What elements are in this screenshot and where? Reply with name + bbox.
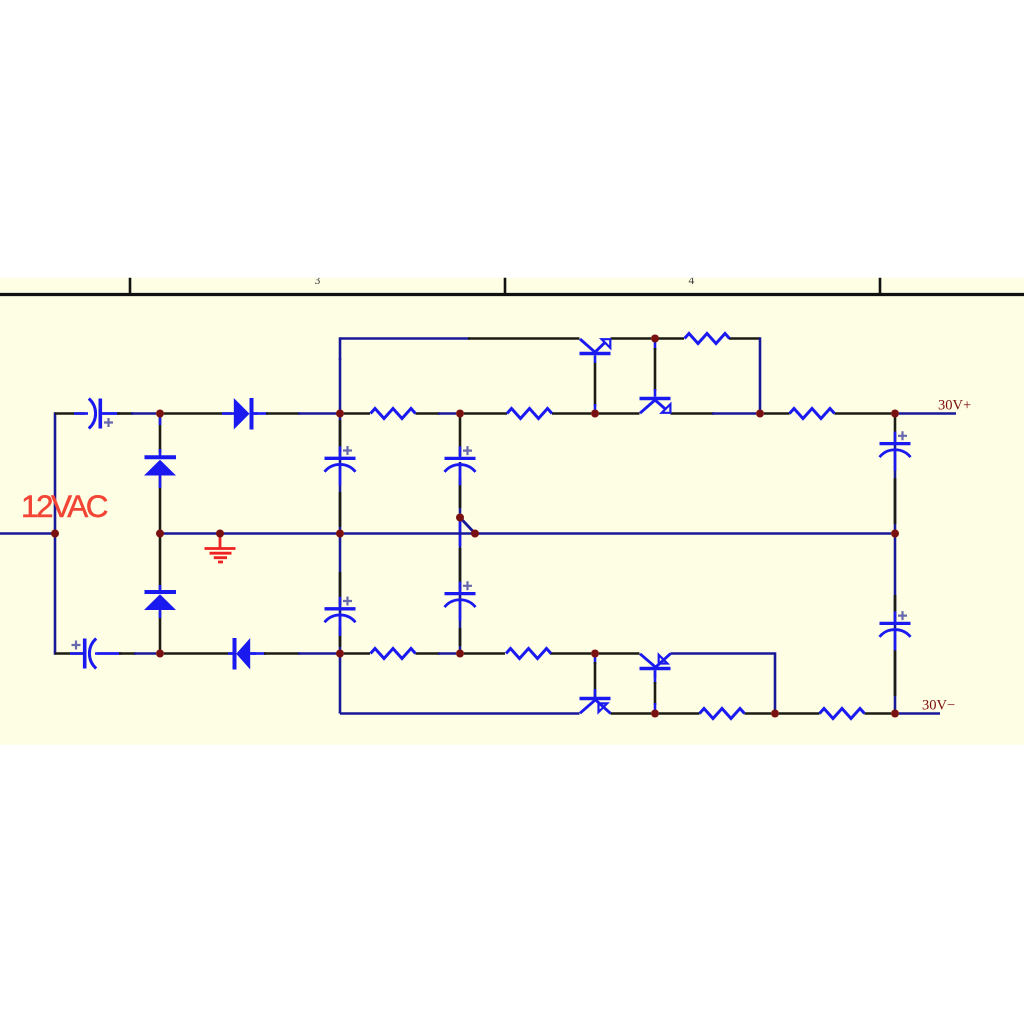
- capacitor C5: [445, 446, 476, 485]
- wire mid rail left: [160, 532, 340, 535]
- svg-text:12VAC: 12VAC: [21, 488, 109, 524]
- capacitor C1: [74, 399, 117, 429]
- junction node H: [456, 650, 464, 658]
- wire mid rail right: [344, 532, 891, 535]
- wire R1 to node E: [416, 412, 457, 415]
- resistor R2: [507, 409, 552, 419]
- wire R8 to 30V- node: [865, 712, 892, 715]
- wire C1 to node A: [55, 412, 156, 415]
- junction node E: [456, 410, 464, 418]
- transistor Q4: [580, 689, 611, 713]
- junction node 12VAC: [51, 530, 59, 538]
- wire Q1 emitter to Q2 base node: [611, 337, 652, 340]
- diode D2: [144, 585, 176, 618]
- wire node B to D4: [164, 652, 233, 655]
- wire node J to R7: [659, 712, 700, 715]
- junction node E-jog: [456, 514, 464, 522]
- wire node E to R2: [464, 412, 507, 415]
- wire output column lower: [894, 537, 897, 711]
- wire node D to R3: [344, 652, 370, 655]
- wire Q3 base lead: [654, 670, 657, 710]
- capacitor C6: [445, 581, 476, 620]
- wire R3 to node H: [416, 652, 457, 655]
- svg-text:30V−: 30V−: [922, 698, 955, 714]
- diode D3: [222, 398, 258, 430]
- wire 30V- stub: [899, 712, 940, 715]
- transistor Q1: [580, 339, 611, 363]
- resistor R7: [700, 709, 745, 719]
- junction node E-mid: [471, 530, 479, 538]
- junction node J: [651, 710, 659, 718]
- wire jog node E: [460, 518, 475, 534]
- wire Q2 base lead: [654, 342, 657, 392]
- wire Q4 emitter to Q3 base node: [611, 712, 652, 715]
- transistor Q3: [640, 654, 671, 678]
- wire column E lower: [459, 520, 462, 651]
- label 30V-: [922, 698, 955, 714]
- wire R7 to node K: [745, 712, 772, 715]
- wire R2 to Q1 base: [552, 412, 591, 415]
- wire Q1 collector row: [599, 412, 640, 415]
- wire column E upper: [459, 417, 462, 514]
- wire output column upper: [894, 417, 897, 531]
- junction node Q4-base: [591, 650, 599, 658]
- capacitor C3: [325, 446, 356, 485]
- junction node mid-right: [891, 530, 899, 538]
- diode D1: [144, 417, 176, 488]
- wire R4 to Q4 base node: [550, 652, 591, 655]
- transistor Q2: [640, 389, 671, 413]
- wire D3 to node C: [253, 412, 340, 415]
- wire Q3 emitter run: [671, 652, 776, 655]
- wire node G to D2: [159, 537, 162, 590]
- wire node C to R1: [344, 412, 370, 415]
- wire D2 to node B: [159, 611, 162, 651]
- wire node F top corner: [655, 337, 760, 410]
- wire bottom rail left: [340, 712, 580, 713]
- resistor R6: [790, 409, 835, 419]
- svg-text:30V+: 30V+: [938, 398, 971, 414]
- junction node K: [771, 710, 779, 718]
- wire R6 to 30V+ node: [835, 412, 892, 415]
- junction node G: [156, 530, 164, 538]
- wire Q2 emitter to node F: [671, 412, 757, 415]
- wire Q4 base lead: [594, 657, 597, 698]
- wire node H to R4: [464, 652, 505, 655]
- wire left vertical: [54, 412, 57, 655]
- resistor R4: [506, 649, 551, 659]
- capacitor C2: [70, 639, 119, 669]
- junction node Q1-base: [591, 410, 599, 418]
- wire 30V+ stub: [899, 412, 956, 415]
- wire C2 to node B: [55, 652, 156, 655]
- wire node F to R6: [764, 412, 790, 415]
- capacitor C4: [325, 597, 356, 636]
- wire column C: [339, 358, 342, 714]
- ground: [205, 537, 236, 562]
- wire D4 to node D: [251, 652, 340, 655]
- junction node F-top: [651, 335, 659, 343]
- junction node D: [336, 650, 344, 658]
- resistor R1: [371, 409, 416, 419]
- label 30V+: [938, 398, 971, 414]
- wire 12VAC input: [0, 532, 55, 535]
- junction node C-mid: [336, 530, 344, 538]
- junction node 30V-: [891, 710, 899, 718]
- resistor R8: [820, 709, 865, 719]
- junction node C: [336, 410, 344, 418]
- wire node K to R8: [779, 712, 820, 715]
- junction node 30V+: [891, 410, 899, 418]
- wire Q3 collector row: [599, 652, 640, 655]
- capacitor C8: [880, 611, 911, 650]
- junction node F: [756, 410, 764, 418]
- wire node A to D1: [159, 417, 162, 454]
- label 12VAC: [21, 488, 109, 524]
- resistor R3: [371, 649, 416, 659]
- wire right bottom corner: [774, 652, 777, 710]
- capacitor C7: [880, 431, 911, 470]
- junction node A: [156, 410, 164, 418]
- junction node B: [156, 650, 164, 658]
- resistor R5: [685, 334, 730, 344]
- wire feedback top: [340, 337, 580, 360]
- wire node A to D3: [164, 412, 232, 415]
- diode D4: [228, 638, 256, 670]
- wire D1 to node G: [159, 476, 162, 531]
- junction node GND: [216, 530, 224, 538]
- wire Q1 base lead: [594, 362, 597, 411]
